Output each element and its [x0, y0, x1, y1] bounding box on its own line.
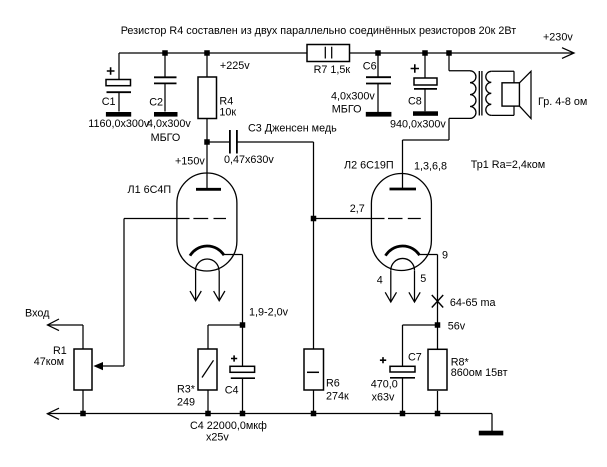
svg-text:1160,0х300v: 1160,0х300v [88, 118, 150, 130]
svg-text:940,0х300v: 940,0х300v [390, 119, 446, 131]
svg-text:9: 9 [442, 250, 448, 262]
svg-text:470,0: 470,0 [371, 378, 398, 390]
svg-text:+230v: +230v [543, 32, 573, 44]
svg-text:Л1 6С4П: Л1 6С4П [128, 184, 172, 196]
svg-text:1,3,6,8: 1,3,6,8 [414, 161, 447, 173]
svg-text:64-65 ma: 64-65 ma [450, 297, 496, 309]
svg-text:Гр. 4-8 ом: Гр. 4-8 ом [538, 96, 587, 108]
svg-text:249: 249 [177, 397, 195, 409]
svg-text:МБГО: МБГО [151, 132, 181, 144]
svg-text:С6: С6 [363, 61, 377, 73]
svg-text:274к: 274к [326, 391, 349, 403]
svg-text:Вход: Вход [25, 308, 50, 320]
svg-text:+225v: +225v [220, 60, 250, 72]
svg-text:47ком: 47ком [34, 356, 64, 368]
svg-text:С8: С8 [408, 96, 422, 108]
svg-text:860ом 15вт: 860ом 15вт [451, 367, 508, 379]
svg-text:+150v: +150v [175, 156, 205, 168]
svg-text:0,47х630v: 0,47х630v [224, 154, 274, 166]
svg-text:С1: С1 [102, 96, 116, 108]
svg-text:х25v: х25v [206, 432, 229, 444]
svg-text:2,7: 2,7 [350, 203, 365, 215]
svg-text:R7 1,5к: R7 1,5к [314, 64, 351, 76]
svg-text:С7: С7 [408, 352, 422, 364]
svg-text:4: 4 [377, 275, 383, 287]
svg-text:5: 5 [420, 273, 426, 285]
svg-text:Резистор R4 составлен из двух: Резистор R4 составлен из двух параллельн… [121, 25, 517, 37]
svg-text:С4 22000,0мкф: С4 22000,0мкф [190, 420, 267, 432]
svg-text:1,9-2,0v: 1,9-2,0v [249, 307, 289, 319]
svg-text:R6: R6 [326, 378, 340, 390]
svg-text:х63v: х63v [372, 391, 395, 403]
svg-text:Л2 6С19П: Л2 6С19П [344, 160, 394, 172]
svg-text:С4: С4 [225, 385, 239, 397]
svg-text:С2: С2 [149, 96, 163, 108]
svg-text:МБГО: МБГО [332, 104, 362, 116]
svg-text:4,0х300v: 4,0х300v [147, 118, 191, 130]
svg-text:R3*: R3* [177, 384, 196, 396]
svg-text:10к: 10к [219, 107, 236, 119]
svg-text:С3 Дженсен медь: С3 Дженсен медь [248, 123, 337, 135]
svg-text:4,0х300v: 4,0х300v [331, 91, 375, 103]
svg-text:Тр1 Rа=2,4ком: Тр1 Rа=2,4ком [471, 159, 545, 171]
svg-text:56v: 56v [448, 321, 466, 333]
